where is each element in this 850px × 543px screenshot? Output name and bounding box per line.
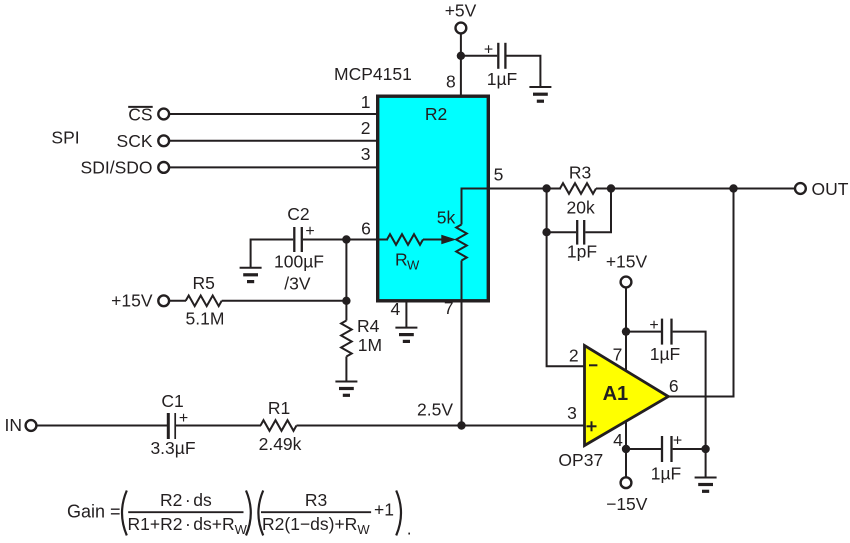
svg-text:3.3µF: 3.3µF bbox=[150, 438, 195, 458]
resistor RW (wiper resistance, inside U1) bbox=[387, 234, 423, 245]
svg-text:1µF: 1µF bbox=[650, 344, 681, 364]
wire R4 to ground bbox=[345, 357, 347, 382]
svg-text:+: + bbox=[179, 410, 188, 427]
capacitor C2 100uF/3V bbox=[274, 204, 324, 293]
ground (C2 left) bbox=[240, 268, 262, 282]
potentiometer element 5k (inside U1) bbox=[456, 225, 467, 261]
ground (bypass rail) bbox=[695, 478, 717, 492]
svg-text:R3: R3 bbox=[569, 162, 591, 182]
terminal OUT bbox=[795, 179, 849, 199]
svg-text:4: 4 bbox=[391, 299, 401, 319]
svg-text:+1: +1 bbox=[374, 500, 394, 520]
wire R1 to op-amp pin 3 bbox=[297, 425, 585, 427]
svg-text:+: + bbox=[673, 432, 682, 449]
svg-text:20k: 20k bbox=[566, 197, 594, 217]
terminal CS-bar (chip select input) bbox=[128, 105, 169, 125]
svg-text:SDI/SDO: SDI/SDO bbox=[81, 158, 153, 178]
wire pot top to pin 5 exit bbox=[462, 189, 490, 225]
wire ground arm to C2 bbox=[251, 240, 294, 268]
terminal SCK (clock input) bbox=[117, 131, 170, 151]
svg-text:1: 1 bbox=[361, 92, 371, 112]
svg-text:W: W bbox=[407, 258, 420, 273]
wire R3 to OUT bbox=[596, 188, 795, 190]
IC U1 MCP4151 digital potentiometer body bbox=[378, 96, 489, 301]
node -15V bypass junction bbox=[622, 445, 630, 453]
svg-text:R1+R2·ds+RW: R1+R2·ds+RW bbox=[128, 514, 248, 537]
svg-text:R2: R2 bbox=[425, 104, 447, 124]
label RW bbox=[395, 250, 420, 273]
svg-text:R2·ds: R2·ds bbox=[160, 490, 212, 510]
wire +15V to R5 bbox=[169, 300, 186, 302]
svg-text:A1: A1 bbox=[603, 383, 629, 405]
svg-text:3: 3 bbox=[567, 403, 577, 423]
resistor R4 1M bbox=[341, 316, 382, 357]
svg-text:+15V: +15V bbox=[606, 252, 648, 272]
svg-text:2.5V: 2.5V bbox=[417, 400, 453, 420]
op-amp A1 OP37 triangle bbox=[585, 346, 669, 446]
wire node to 1pF bbox=[547, 231, 576, 233]
node R5/R4 bias junction bbox=[342, 297, 350, 305]
svg-text:R1: R1 bbox=[268, 398, 290, 418]
svg-text:Gain =: Gain = bbox=[67, 502, 121, 522]
wire inverting feedback node down to op-amp pin 2 bbox=[547, 189, 584, 367]
svg-text:1M: 1M bbox=[358, 335, 382, 355]
capacitor 1uF (+5V bypass) bbox=[484, 41, 517, 89]
wire top bypass cap to ground rail bbox=[673, 332, 706, 478]
wire SCK to pin 2 bbox=[169, 140, 377, 142]
wire +5V node to bypass capacitor bbox=[461, 55, 497, 57]
node R3 left junction bbox=[542, 184, 550, 192]
node feedback junction bbox=[729, 184, 737, 192]
power terminal +15V (bias) bbox=[111, 291, 169, 311]
node 1pF left junction bbox=[542, 228, 550, 236]
svg-text:+: + bbox=[649, 317, 658, 334]
svg-text:IN: IN bbox=[5, 415, 23, 435]
wire C1 to R1 bbox=[176, 425, 261, 427]
wire pin 4 to ground bbox=[405, 300, 407, 328]
svg-text:R5: R5 bbox=[193, 273, 215, 293]
svg-text:R4: R4 bbox=[357, 316, 380, 336]
wire pin6 node down to R5/R4 node bbox=[345, 240, 347, 301]
wire bottom bypass cap to ground rail bbox=[673, 448, 706, 450]
node +5V rail junction bbox=[457, 52, 465, 60]
svg-text:2: 2 bbox=[361, 118, 371, 138]
svg-text:C1: C1 bbox=[161, 391, 183, 411]
wire junction to top bypass cap bbox=[626, 331, 661, 333]
svg-text:C2: C2 bbox=[287, 204, 309, 224]
wire pin 7 pot bottom down to 2.5V node bbox=[461, 261, 463, 426]
svg-text:1pF: 1pF bbox=[567, 242, 597, 262]
wire bias node to R4 bbox=[345, 301, 347, 321]
svg-text:6: 6 bbox=[669, 376, 679, 396]
svg-text:7: 7 bbox=[444, 298, 454, 318]
svg-text:3: 3 bbox=[361, 144, 371, 164]
wire junction to bottom bypass cap bbox=[626, 448, 661, 450]
svg-text:7: 7 bbox=[613, 344, 623, 364]
svg-text:6: 6 bbox=[361, 218, 371, 238]
svg-text:SPI: SPI bbox=[51, 128, 79, 148]
wire R5 to bias node bbox=[222, 300, 347, 302]
svg-text:R3: R3 bbox=[305, 490, 327, 510]
svg-text:R2(1−ds)+RW: R2(1−ds)+RW bbox=[262, 514, 370, 537]
svg-text:1µF: 1µF bbox=[487, 69, 518, 89]
svg-text:5: 5 bbox=[494, 165, 504, 185]
svg-text:5k: 5k bbox=[437, 208, 456, 228]
wire C2 to pin 6 of U1 bbox=[303, 239, 388, 241]
ground (+5V bypass) bbox=[529, 87, 551, 101]
ground (pin 4 of U1) bbox=[395, 328, 417, 342]
node ground rail junction bbox=[701, 445, 709, 453]
terminal IN bbox=[5, 415, 37, 435]
wire pin 4 to -15V supply bbox=[625, 421, 627, 478]
wire IN to C1 bbox=[36, 425, 167, 427]
node C2 / pin 6 junction bbox=[342, 235, 350, 243]
wiper arrow bbox=[423, 235, 456, 245]
ground (R4) bbox=[335, 382, 357, 396]
svg-text:+: + bbox=[305, 223, 314, 240]
svg-text:100µF: 100µF bbox=[274, 252, 324, 272]
capacitor 1uF (bottom bypass, -15V) bbox=[651, 432, 682, 483]
capacitor C1 3.3uF bbox=[150, 391, 195, 458]
gain equation bbox=[67, 490, 412, 539]
power terminal -15V bbox=[606, 477, 648, 514]
svg-text:.: . bbox=[407, 519, 412, 539]
wire output feedback from OUT rail down to A1 output bbox=[668, 189, 733, 397]
svg-text:+5V: +5V bbox=[445, 0, 477, 20]
resistor R1 2.49k bbox=[259, 398, 302, 454]
wire SDI/SDO to pin 3 bbox=[169, 166, 377, 168]
svg-text:OUT: OUT bbox=[812, 179, 849, 199]
power terminal +5V bbox=[445, 0, 477, 33]
svg-text:4: 4 bbox=[613, 430, 623, 450]
svg-text:SCK: SCK bbox=[117, 131, 153, 151]
svg-text:−15V: −15V bbox=[606, 494, 648, 514]
svg-text:/3V: /3V bbox=[284, 274, 311, 294]
resistor R5 5.1M bbox=[186, 273, 225, 328]
capacitor 1pF (across R3) bbox=[567, 220, 597, 262]
svg-text:2: 2 bbox=[569, 345, 579, 365]
wire pin 5 to R3 bbox=[489, 188, 561, 190]
wire 1pF to R3 right node bbox=[585, 189, 611, 233]
plus sign (non-inverting input) bbox=[587, 421, 597, 431]
power terminal +15V (A1 supply) bbox=[606, 252, 648, 288]
node R3 right junction bbox=[607, 184, 615, 192]
wire +5V terminal to pin 8 of U1 bbox=[460, 33, 462, 96]
svg-text:OP37: OP37 bbox=[558, 450, 603, 470]
terminal SDI/SDO (data input) bbox=[81, 158, 170, 178]
resistor R3 20k bbox=[560, 162, 596, 217]
svg-text:R: R bbox=[395, 250, 408, 270]
node 2.5V junction bbox=[457, 421, 465, 429]
node +15V bypass junction bbox=[622, 327, 630, 335]
svg-text:1µF: 1µF bbox=[651, 464, 682, 484]
minus sign (inverting input) bbox=[589, 364, 597, 366]
wire +15V supply to pin 7 bbox=[625, 287, 627, 371]
svg-text:5.1M: 5.1M bbox=[186, 309, 225, 329]
svg-text:2.49k: 2.49k bbox=[259, 434, 302, 454]
svg-text:MCP4151: MCP4151 bbox=[334, 64, 412, 84]
wire bypass capacitor to ground bbox=[507, 56, 541, 87]
svg-text:+15V: +15V bbox=[111, 291, 153, 311]
svg-text:+: + bbox=[484, 41, 493, 58]
capacitor 1uF (top bypass, +15V) bbox=[649, 317, 680, 364]
svg-text:8: 8 bbox=[446, 71, 456, 91]
wire CS to pin 1 bbox=[169, 113, 377, 115]
